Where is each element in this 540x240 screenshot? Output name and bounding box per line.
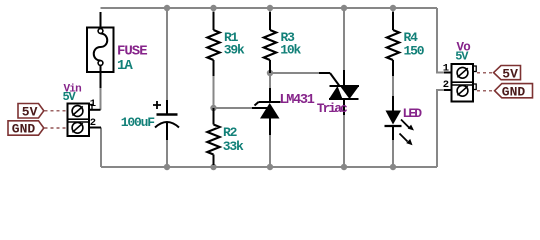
svg-text:5V: 5V bbox=[63, 90, 77, 104]
svg-text:2: 2 bbox=[443, 79, 449, 91]
svg-text:GND: GND bbox=[12, 122, 36, 137]
svg-text:2: 2 bbox=[90, 117, 96, 129]
svg-text:39k: 39k bbox=[224, 43, 245, 58]
svg-text:33k: 33k bbox=[223, 139, 244, 154]
svg-text:100uF: 100uF bbox=[121, 115, 155, 130]
svg-text:5V: 5V bbox=[502, 66, 518, 81]
svg-text:GND: GND bbox=[502, 85, 526, 100]
svg-text:LM431: LM431 bbox=[280, 93, 315, 108]
svg-text:LED: LED bbox=[403, 106, 423, 121]
svg-text:5V: 5V bbox=[455, 49, 469, 63]
svg-text:R2: R2 bbox=[223, 125, 238, 140]
svg-text:1: 1 bbox=[443, 63, 449, 75]
svg-text:5V: 5V bbox=[22, 104, 38, 119]
svg-text:Triac: Triac bbox=[317, 101, 348, 116]
svg-text:1A: 1A bbox=[117, 58, 133, 74]
svg-text:150: 150 bbox=[404, 44, 425, 59]
svg-text:10k: 10k bbox=[280, 43, 301, 58]
svg-text:1: 1 bbox=[90, 98, 96, 110]
